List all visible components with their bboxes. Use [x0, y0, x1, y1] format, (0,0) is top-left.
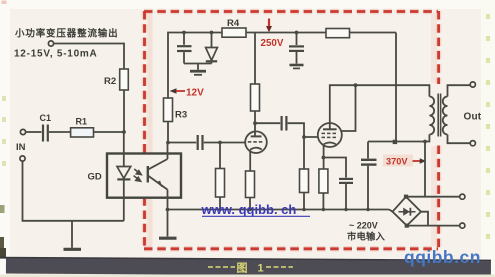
svg-text:小功率变压器整流输出: 小功率变压器整流输出	[14, 28, 119, 40]
terminal: Out lower	[470, 141, 475, 146]
resistor R3	[164, 98, 188, 122]
node: zener top	[210, 31, 214, 35]
wire: 12V riser and top rail	[168, 33, 396, 99]
ground (12V regulator)	[190, 64, 206, 75]
svg-text:qqibb.cn: qqibb.cn	[404, 247, 481, 267]
node: V2 cathode junction	[322, 156, 326, 160]
wire: bridge right vertex jog	[421, 212, 428, 226]
svg-text:R3: R3	[175, 110, 187, 121]
node: screen/plate junction	[354, 83, 358, 87]
bottom caption bar	[0, 257, 495, 277]
node: bridge top vertex	[404, 195, 408, 199]
wire R1 to LED junction	[94, 131, 125, 133]
phototransistor inside optocoupler	[148, 159, 168, 190]
red dashed enclosure box halo	[144, 11, 439, 249]
capacitor C6 (cathode bypass)	[323, 158, 353, 210]
resistor R10 (V2 cathode)	[319, 169, 328, 210]
pentode V2	[318, 123, 342, 147]
scan pink streaks	[148, 13, 438, 247]
output transformer T1 core	[438, 94, 440, 137]
capacitor C5 (interstage coupling)	[282, 116, 287, 131]
svg-text:12-15V, 5-10mA: 12-15V, 5-10mA	[14, 49, 98, 60]
svg-text:~ 220V: ~ 220V	[349, 221, 378, 231]
resistor R2	[104, 69, 128, 90]
ground (left input ground)	[64, 221, 82, 250]
wire: bridge top to AC terminal	[406, 196, 460, 198]
wire: R3 bottom to collector node	[167, 122, 169, 143]
zener diode D1	[206, 33, 218, 64]
resistor R5 (rail dropping)	[326, 29, 350, 38]
bus junction dots	[218, 208, 369, 211]
red 370V label with arrow	[386, 157, 426, 167]
optocoupler GD box	[88, 154, 182, 198]
svg-text:GD: GD	[88, 172, 102, 183]
terminal: Out upper	[470, 82, 475, 87]
capacitor C1	[40, 113, 52, 142]
ground (250V decoupling cap)	[290, 65, 304, 68]
bridge rectifier	[393, 197, 422, 226]
svg-text:R4: R4	[227, 18, 240, 29]
output transformer T1 secondary winding	[443, 97, 448, 135]
resistor R7 (V1 plate load)	[251, 33, 260, 132]
svg-text:图 1: 图 1	[237, 262, 268, 275]
LED light arrows	[134, 169, 142, 181]
node: collector / R3 junction	[166, 141, 170, 145]
output transformer T1 primary winding	[429, 97, 434, 135]
node: bridge bottom vertex	[405, 224, 409, 228]
node: R2/R1 junction	[122, 130, 126, 134]
wire: LED cathode to bottom rail	[123, 198, 125, 221]
wire: secondary bottom to Out terminal	[448, 135, 471, 144]
resistor R6 (V1 grid leak)	[216, 143, 225, 210]
node: filter cap top	[182, 31, 186, 35]
node: grid resistor junction	[218, 141, 222, 145]
wire: 370V riser bridge to primary-bottom node	[424, 142, 426, 197]
terminal: rectified supply output	[48, 41, 53, 46]
capacitor C4 (coupling to V1 grid)	[198, 135, 203, 150]
node: V1 plate / C5 branch	[253, 121, 257, 125]
svg-text:12V: 12V	[186, 88, 204, 99]
wire IN upper to C1	[26, 131, 42, 133]
red dashed enclosure box	[144, 11, 439, 249]
wire: LED anode through box	[123, 132, 125, 167]
triode V1	[245, 131, 267, 153]
watermark www.qqibb.ch	[201, 202, 311, 217]
wire: V2 plate to transformer primary top	[330, 85, 430, 123]
node: emitter/bus junction	[166, 208, 170, 212]
wire: cap/zener bottoms joined	[184, 63, 212, 65]
svg-text:市电输入: 市电输入	[347, 231, 385, 242]
terminal IN lower	[20, 156, 25, 161]
ground bus wire	[168, 210, 393, 212]
terminal: AC input upper	[460, 194, 465, 199]
capacitor C2 (12V filter)	[177, 33, 192, 64]
wire: V2 cathode node	[323, 144, 325, 169]
node: decoupling cap top	[295, 31, 299, 35]
caption 图 1	[208, 262, 293, 275]
resistor R9 (V1 cathode)	[246, 150, 255, 210]
capacitor C7 (B+ filter)	[361, 142, 377, 210]
node: B+ junction	[393, 140, 397, 144]
wire: secondary top to Out terminal	[448, 85, 471, 96]
wire: V2 screen tie to plate node	[342, 85, 356, 131]
wire: phototransistor emitter down to bus	[167, 190, 169, 210]
terminal IN upper	[16, 129, 26, 153]
svg-text:C1: C1	[40, 113, 52, 123]
wire: R2 bottom to input line junction	[123, 90, 125, 132]
svg-text:www. qqibb. ch: www. qqibb. ch	[201, 202, 297, 217]
wire: phototransistor collector up to node	[167, 143, 169, 160]
svg-text:R2: R2	[104, 76, 116, 87]
terminal: AC input lower	[460, 223, 465, 228]
wire: rail right end down to primary bottom	[395, 33, 397, 142]
wire: C5 to V2 grid node	[288, 123, 318, 137]
svg-text:Out: Out	[464, 112, 482, 123]
capacitor C3 (250V decoupling)	[289, 33, 304, 64]
wire: node to coupling cap C4	[168, 142, 196, 144]
wire: plate node to C5	[255, 122, 280, 124]
wire: bridge bottom to AC terminal	[407, 225, 460, 227]
12V label with arrow	[170, 88, 205, 99]
svg-text:IN: IN	[16, 142, 26, 153]
node: V2 grid junction	[302, 135, 306, 139]
svg-text:370V: 370V	[386, 157, 408, 167]
wire: B+ line to primary bottom	[368, 135, 429, 142]
wire: supply terminal to R2 top	[54, 44, 125, 70]
resistor R4	[222, 18, 246, 37]
wire: C4 to V1 grid	[204, 142, 246, 144]
red 250V arrow	[261, 19, 284, 50]
ground (main bus)	[159, 210, 177, 239]
node: 370V riser top	[423, 140, 427, 144]
wire C1 to R1	[49, 131, 71, 133]
wire IN lower down and along bottom	[23, 161, 124, 221]
resistor R8 (V2 grid leak)	[300, 137, 309, 210]
resistor R1	[71, 117, 94, 138]
svg-text:250V: 250V	[261, 38, 284, 49]
bridge internal diode	[399, 208, 416, 216]
svg-text:R1: R1	[76, 117, 88, 127]
LED inside optocoupler	[117, 167, 131, 198]
